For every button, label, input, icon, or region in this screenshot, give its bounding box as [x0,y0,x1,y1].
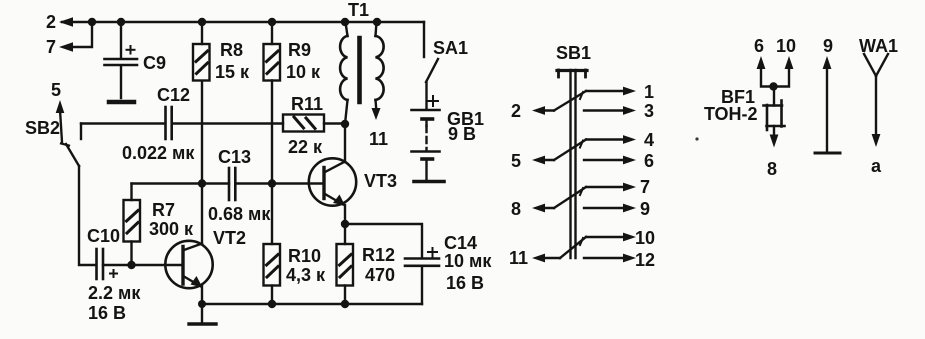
wire top supply rail [62,21,424,23]
node C9 top [117,18,125,26]
resistor R11 [283,115,324,132]
resistor R8 [193,22,210,81]
node R12 bottom [341,300,349,308]
svg-text:R9: R9 [288,40,311,60]
svg-text:6: 6 [754,36,764,56]
svg-text:15 к: 15 к [215,62,250,82]
capacitor C13 [202,168,272,200]
svg-text:SA1: SA1 [433,38,468,58]
svg-text:VT3: VT3 [364,171,397,191]
svg-text:12: 12 [635,250,655,270]
wire VT3 collector up [344,124,346,162]
node VT3 emitter [341,220,349,228]
node C13 right / VT3 base [268,179,276,187]
resistor R10 [264,244,281,304]
wire VT2 emitter down [201,286,203,304]
node R8 top [198,18,206,26]
wire C14 bottom to rail [421,266,423,304]
wire R7 top to C13 node [132,182,203,184]
switch SB1 pushbutton bar [557,70,587,258]
svg-text:22 к: 22 к [288,137,323,157]
node C13 left / VT2 collector [198,179,206,187]
svg-text:300 к: 300 к [149,219,194,239]
SB1 group 2: contacts 4-5-6 [532,135,636,164]
wire rail corner to SA1 [423,22,425,57]
scan speck [695,137,698,140]
svg-text:9: 9 [823,36,833,56]
wire bottom rail [202,303,422,305]
svg-text:C9: C9 [143,53,166,73]
SB1 contact groups [509,82,655,270]
node R10 bottom [268,300,276,308]
svg-text:8: 8 [767,159,777,179]
capacitor C12 [166,107,172,139]
svg-text:WA1: WA1 [859,36,898,56]
svg-text:C13: C13 [218,147,251,167]
chassis bar under GB1 [414,180,444,184]
svg-text:0.022 мк: 0.022 мк [122,143,195,163]
svg-text:C10: C10 [87,226,120,246]
svg-text:8: 8 [511,199,521,219]
wire SB2 blade down to C10 [79,166,96,265]
node VT2 emitter / ground [198,300,206,308]
node at terminal-7 branch [88,18,96,26]
node T1 secondary top [373,18,381,26]
wire VT2 collector up to R8 [201,82,203,244]
svg-text:R11: R11 [291,94,323,114]
svg-text:470: 470 [365,265,395,285]
wire emitter node to C14 [345,224,422,258]
wire C12 to R11 [172,122,283,124]
wire VT3 emitter down [344,205,346,224]
terminal arrow 7 [59,42,73,52]
wire R11 to collector node [324,122,345,124]
ground under VT2 [189,304,216,324]
transistor VT3 [309,158,356,205]
svg-text:ТОН-2: ТОН-2 [704,104,758,124]
svg-text:1: 1 [644,82,654,102]
switch SB2 [56,100,81,166]
svg-text:R7: R7 [152,200,175,220]
svg-text:2.2 мк: 2.2 мк [88,283,141,303]
svg-text:16 В: 16 В [88,303,126,323]
svg-text:SB2: SB2 [25,118,60,138]
svg-text:VT2: VT2 [213,228,246,248]
switch SA1 blade [426,59,438,82]
node T1 primary bottom / VT3 collector [341,120,349,128]
svg-text:3: 3 [644,101,654,121]
ground under C9 [109,100,134,105]
svg-text:5: 5 [51,80,61,100]
node T1 primary top [341,18,349,26]
svg-text:4: 4 [644,130,654,150]
svg-text:R12: R12 [362,245,395,265]
svg-text:16 В: 16 В [446,273,484,293]
wire C10 to VT2 base [103,264,183,266]
node R9 top [268,18,276,26]
node R7 bottom [127,261,135,269]
svg-text:R8: R8 [220,40,243,60]
svg-text:R10: R10 [288,246,321,266]
capacitor C10 [97,249,118,279]
wire R10 top lead [271,184,273,245]
svg-text:C14: C14 [444,233,477,253]
svg-text:11: 11 [369,129,388,149]
svg-text:9 В: 9 В [448,124,476,144]
svg-text:10: 10 [635,228,655,248]
antenna WA1 [864,54,888,147]
SB1 group 3: contacts 7-8-9 [532,183,636,213]
svg-text:C12: C12 [157,85,190,105]
resistor R12 [337,224,354,304]
capacitor C14 [405,248,439,266]
svg-text:10 мк: 10 мк [444,251,492,271]
svg-text:9: 9 [640,199,650,219]
wire R9 lead down to base node of VT3 [271,81,273,184]
resistor R7 [124,184,141,266]
transistor VT2 [165,241,212,288]
SB1 group 4: contacts 10-11-12 [532,233,636,263]
capacitor C9 [105,22,138,98]
wire SB2 fixed contact to C12 [81,122,165,124]
svg-text:10: 10 [776,36,796,56]
svg-text:6: 6 [644,151,654,171]
svg-text:SB1: SB1 [556,43,591,63]
headphone BF1 [764,87,785,148]
wire VT3 base [272,182,324,184]
SB1 group 1: contacts 1-2-3 [532,87,636,115]
svg-text:5: 5 [511,151,521,171]
svg-text:7: 7 [46,37,56,57]
terminal 9 with chassis bar [815,56,840,153]
svg-text:а: а [871,156,882,176]
battery GB1 [412,82,440,179]
transformer T1 [340,22,384,124]
svg-text:4,3 к: 4,3 к [286,265,326,285]
resistor R9 [264,22,281,81]
svg-text:7: 7 [640,177,650,197]
wire branch to terminal 7 [66,22,92,47]
headphone BF1 terminal arrows [757,56,794,91]
svg-text:2: 2 [46,12,56,32]
svg-text:2: 2 [511,101,521,121]
svg-text:10 к: 10 к [286,62,321,82]
svg-text:11: 11 [509,248,528,268]
right-hand terminals [695,36,898,179]
terminal arrow 2 [59,17,73,27]
svg-text:T1: T1 [348,0,369,20]
svg-text:0.68 мк: 0.68 мк [208,204,271,224]
